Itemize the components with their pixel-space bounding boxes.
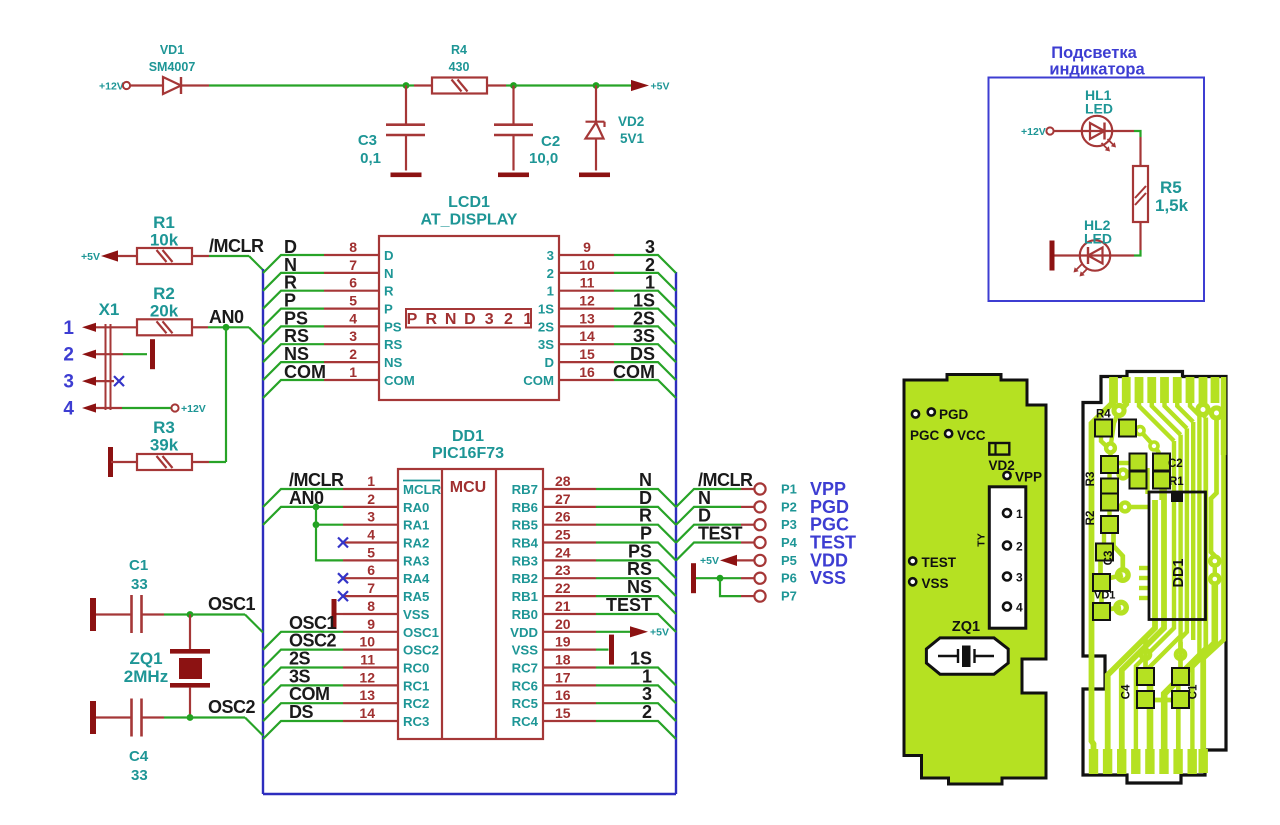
svg-text:13: 13 bbox=[359, 687, 375, 703]
label N at DD1 pin28 bbox=[639, 470, 652, 490]
svg-text:VD1: VD1 bbox=[1094, 590, 1115, 602]
label D at LCD1 left bbox=[284, 237, 297, 257]
DD1 left pin 14 (RC3) bbox=[343, 705, 429, 729]
DD1 left pin 11 (RC0) bbox=[343, 652, 429, 676]
svg-text:12: 12 bbox=[579, 293, 595, 309]
power flag +5V (top rail) bbox=[631, 80, 669, 93]
svg-text:R4: R4 bbox=[451, 43, 467, 57]
svg-text:23: 23 bbox=[555, 562, 571, 578]
connector pin P6 bbox=[754, 568, 846, 588]
svg-text:LED: LED bbox=[1084, 231, 1112, 247]
wire DD1 pin27 to bus (D) bbox=[596, 507, 676, 525]
svg-text:RB7: RB7 bbox=[512, 482, 538, 497]
svg-text:P1: P1 bbox=[781, 482, 797, 497]
svg-text:5V1: 5V1 bbox=[620, 131, 645, 146]
svg-text:21: 21 bbox=[555, 598, 571, 614]
svg-text:TEST: TEST bbox=[922, 555, 957, 570]
PCB pad VSS bbox=[909, 576, 948, 591]
svg-text:5: 5 bbox=[367, 544, 375, 560]
svg-text:1: 1 bbox=[349, 364, 357, 380]
svg-text:VD1: VD1 bbox=[160, 43, 184, 57]
crystal ZQ1 2MHz bbox=[124, 649, 210, 688]
wire bus to LCD1 pin 6 bbox=[263, 291, 324, 309]
wire DD1 pin24 to bus (PS) bbox=[596, 560, 676, 578]
PCB part DD1 outline bbox=[1149, 492, 1206, 620]
resistor R3 39k bbox=[137, 418, 192, 470]
label OSC2 at DD1 pin10 bbox=[289, 631, 337, 651]
LED HL1 bbox=[1082, 87, 1116, 152]
wire node A to R4 bbox=[406, 84, 432, 86]
frame Подсветка индикатора bbox=[989, 44, 1205, 301]
svg-text:3: 3 bbox=[367, 509, 375, 525]
connector pin P7 bbox=[754, 589, 797, 604]
svg-text:OSC1: OSC1 bbox=[208, 594, 256, 614]
svg-text:RC6: RC6 bbox=[512, 678, 538, 693]
DD1 right pin 16 (RC5) bbox=[512, 687, 596, 711]
DD1 right pin 25 (RB4) bbox=[512, 527, 596, 551]
label 3S at LCD1 right bbox=[633, 326, 655, 346]
no-connect X at X1 pin3 bbox=[114, 376, 124, 386]
svg-text:4: 4 bbox=[1016, 601, 1023, 615]
svg-text:PIC16F73: PIC16F73 bbox=[432, 445, 504, 462]
connector pin P1 bbox=[754, 479, 846, 499]
wire node C to +5V arrow bbox=[596, 84, 631, 86]
svg-text:C1: C1 bbox=[129, 557, 148, 574]
svg-text:LED: LED bbox=[1085, 101, 1113, 117]
svg-text:C2: C2 bbox=[1168, 458, 1183, 470]
power flag +12V at X1 pin4 bbox=[171, 403, 205, 415]
ground at DD1 VSS pin8 bbox=[332, 599, 344, 629]
label DS at LCD1 right bbox=[630, 344, 655, 364]
svg-text:19: 19 bbox=[555, 634, 571, 650]
svg-text:P4: P4 bbox=[781, 535, 798, 550]
LCD1 left pin 4 (PS) bbox=[324, 310, 402, 334]
power flag +5V at R1 bbox=[81, 250, 118, 263]
LCD1 left pin 1 (COM) bbox=[324, 364, 415, 388]
ground at C1 bbox=[90, 598, 96, 631]
wire bus to DD1 pin2 AN0 bbox=[263, 507, 343, 525]
wire ground to C4 bbox=[96, 716, 131, 718]
wire R4 to node B bbox=[488, 84, 514, 86]
svg-text:RA1: RA1 bbox=[403, 518, 429, 533]
wire C4 to node OSC2 bbox=[142, 716, 191, 718]
svg-text:PGD: PGD bbox=[939, 407, 969, 422]
svg-text:C4: C4 bbox=[1121, 684, 1133, 699]
IC DD1 PIC16F73 body bbox=[398, 428, 543, 739]
label 2 at DD1 pin15 bbox=[642, 702, 652, 722]
label NS at LCD1 left bbox=[284, 344, 309, 364]
power flag +12V at HL1 bbox=[1021, 126, 1054, 138]
bus right vertical bbox=[675, 272, 677, 794]
wire VDD to +5V bbox=[596, 631, 630, 633]
DD1 left pin 9 (OSC1) bbox=[343, 616, 439, 640]
label R at DD1 pin26 bbox=[639, 506, 652, 526]
svg-text:TEST: TEST bbox=[606, 595, 652, 615]
wire LCD1 pin 16 to bus bbox=[614, 380, 676, 398]
connector pin P4 bbox=[754, 533, 856, 553]
label 1 at DD1 pin17 bbox=[642, 666, 652, 686]
svg-text:P7: P7 bbox=[781, 589, 797, 604]
capacitor C2 10,0 bbox=[494, 125, 560, 171]
PCB copper side outline bbox=[1083, 372, 1226, 784]
svg-text:Подсветка: Подсветка bbox=[1051, 44, 1137, 62]
wire X1 pin1 to R2 bbox=[96, 326, 137, 328]
DD1 left pin 7 (RA5) bbox=[343, 580, 429, 604]
label 1S at LCD1 right bbox=[633, 291, 655, 311]
node AN0 junction bbox=[223, 324, 230, 331]
connector pin P3 bbox=[754, 515, 849, 535]
svg-text:18: 18 bbox=[555, 652, 571, 668]
wire LCD1 pin 9 to bus bbox=[614, 255, 676, 273]
PCB connector X1 footprint bbox=[976, 487, 1026, 628]
PCB pad PGC VCC bbox=[910, 428, 986, 443]
svg-text:RA0: RA0 bbox=[403, 500, 429, 515]
svg-text:39k: 39k bbox=[150, 436, 179, 455]
wire ground to R3 bbox=[111, 461, 137, 463]
wire +5V to P5 bbox=[737, 559, 754, 561]
svg-text:OSC1: OSC1 bbox=[403, 625, 439, 640]
svg-text:RC5: RC5 bbox=[512, 696, 538, 711]
wire DD1 pin25 to bus (P) bbox=[596, 543, 676, 561]
svg-text:P2: P2 bbox=[781, 499, 797, 514]
label TEST at P4 bbox=[698, 524, 743, 544]
wire bus to P4 bbox=[676, 543, 754, 561]
DD1 left pin 6 (RA4) bbox=[343, 562, 430, 586]
svg-text:3: 3 bbox=[1016, 571, 1023, 585]
svg-text:RB3: RB3 bbox=[512, 553, 538, 568]
DD1 right pin 26 (RB5) bbox=[512, 509, 596, 533]
svg-text:NS: NS bbox=[384, 355, 403, 370]
wire node B to C2 bbox=[512, 86, 514, 125]
svg-text:11: 11 bbox=[360, 652, 375, 668]
svg-text:RC2: RC2 bbox=[403, 696, 429, 711]
LCD1 left pin 5 (P) bbox=[324, 293, 393, 317]
LED HL2 bbox=[1074, 217, 1113, 277]
DD1 right pin 18 (RC7) bbox=[512, 652, 596, 676]
svg-text:PGC: PGC bbox=[910, 428, 940, 443]
svg-text:RC0: RC0 bbox=[403, 661, 429, 676]
wire X1 pin2 to ground bbox=[96, 353, 147, 355]
wire bus to DD1 pin14 (DS) bbox=[263, 721, 343, 739]
PCB pad TEST bbox=[909, 555, 957, 570]
svg-text:C1: C1 bbox=[1188, 684, 1200, 699]
svg-text:RC7: RC7 bbox=[512, 661, 538, 676]
PCB part VD2 bbox=[989, 443, 1015, 473]
wire DD1 pin21 to bus (TEST) bbox=[596, 614, 676, 632]
LCD1 right pin 15 (D) bbox=[544, 346, 614, 370]
label N at LCD1 left bbox=[284, 255, 297, 275]
LCD1 right pin 9 (3) bbox=[547, 239, 614, 263]
svg-text:RA2: RA2 bbox=[403, 536, 429, 551]
svg-text:C3: C3 bbox=[358, 132, 377, 149]
svg-text:8: 8 bbox=[349, 239, 357, 255]
svg-text:VPP: VPP bbox=[1015, 470, 1042, 485]
svg-text:10: 10 bbox=[359, 634, 375, 650]
resistor R4 430 bbox=[432, 43, 487, 94]
label R at LCD1 left bbox=[284, 273, 297, 293]
wire AN0 to RA1/RA3 bbox=[316, 507, 343, 561]
wire node A to C3 bbox=[405, 86, 407, 125]
LCD1 right pin 13 (2S) bbox=[538, 310, 614, 334]
label OSC1 at DD1 pin9 bbox=[289, 613, 337, 633]
label 2 at LCD1 right bbox=[645, 255, 655, 275]
svg-text:10,0: 10,0 bbox=[529, 150, 558, 167]
svg-text:LCD1: LCD1 bbox=[448, 194, 490, 211]
svg-text:ZQ1: ZQ1 bbox=[129, 649, 162, 668]
wire DD1 pin16 to bus (3) bbox=[596, 703, 676, 721]
svg-text:COM: COM bbox=[523, 373, 554, 388]
svg-text:3: 3 bbox=[349, 328, 357, 344]
DD1 right pin 24 (RB3) bbox=[512, 544, 596, 568]
label P at DD1 pin25 bbox=[640, 524, 652, 544]
svg-text:+5V: +5V bbox=[81, 251, 100, 263]
label /MCLR at R1 bbox=[209, 236, 264, 256]
label N at P2 bbox=[698, 488, 711, 508]
svg-text:VSS: VSS bbox=[403, 607, 430, 622]
DD1 left pin 2 (RA0) bbox=[343, 491, 429, 515]
bus bottom horizontal bbox=[263, 793, 676, 795]
DD1 left pin 1 (MCLR) bbox=[343, 473, 442, 497]
svg-text:33: 33 bbox=[131, 767, 148, 784]
svg-text:RC1: RC1 bbox=[403, 678, 429, 693]
wire LCD1 pin 10 to bus bbox=[614, 273, 676, 291]
label D at P3 bbox=[698, 506, 711, 526]
capacitor C3 0,1 bbox=[358, 125, 425, 171]
svg-text:27: 27 bbox=[555, 491, 571, 507]
svg-text:D: D bbox=[464, 311, 476, 328]
svg-text:RC3: RC3 bbox=[403, 714, 429, 729]
svg-text:RB2: RB2 bbox=[512, 571, 538, 586]
wire bus to LCD1 pin 4 bbox=[263, 326, 324, 344]
svg-text:TEST: TEST bbox=[698, 524, 743, 544]
no-connect X at RA4 bbox=[338, 573, 348, 583]
svg-text:X1: X1 bbox=[99, 300, 120, 319]
wire bus to DD1 pin12 (3S) bbox=[263, 685, 343, 703]
svg-text:PS: PS bbox=[384, 319, 402, 334]
ground at DD1 pin19 bbox=[609, 635, 614, 665]
node OSC1 junction bbox=[187, 611, 194, 618]
PCB copper traces bbox=[1089, 377, 1227, 774]
LCD1 right pin 16 (COM) bbox=[523, 364, 614, 388]
wire OSC2 to bus bbox=[190, 718, 263, 736]
label PS at DD1 pin24 bbox=[628, 541, 652, 561]
svg-text:P6: P6 bbox=[781, 571, 797, 586]
DD1 left pin 13 (RC2) bbox=[343, 687, 429, 711]
svg-text:P3: P3 bbox=[781, 517, 797, 532]
wire node B to node C bbox=[514, 84, 597, 86]
ground under VD2 bbox=[579, 173, 610, 178]
svg-text:AT_DISPLAY: AT_DISPLAY bbox=[421, 212, 518, 229]
svg-text:2: 2 bbox=[547, 266, 554, 281]
wire bus to LCD1 pin 8 bbox=[263, 255, 324, 273]
wire bus to LCD1 pin 7 bbox=[263, 273, 324, 291]
svg-text:16: 16 bbox=[555, 687, 571, 703]
svg-text:C2: C2 bbox=[541, 133, 560, 150]
node OSC2 junction bbox=[187, 714, 194, 721]
svg-text:D: D bbox=[384, 248, 394, 263]
svg-text:R2: R2 bbox=[1085, 511, 1097, 526]
svg-text:1,5k: 1,5k bbox=[1155, 196, 1189, 215]
label 1S at DD1 pin18 bbox=[630, 649, 652, 669]
power flag +5V at P5 bbox=[700, 555, 737, 567]
LCD1 left pin 8 (D) bbox=[324, 239, 394, 263]
wire bus to LCD1 pin 1 bbox=[263, 380, 324, 398]
svg-text:R1: R1 bbox=[1169, 476, 1184, 488]
PCB copper vias right of DD1 bbox=[1208, 554, 1222, 586]
svg-text:1: 1 bbox=[523, 311, 532, 328]
wire bus to DD1 pin13 (COM) bbox=[263, 703, 343, 721]
svg-text:3: 3 bbox=[63, 372, 74, 393]
label 2S at DD1 pin11 bbox=[289, 649, 311, 669]
wire bus to DD1 pin1 /MCLR bbox=[263, 489, 343, 507]
svg-text:MCLR: MCLR bbox=[403, 482, 442, 497]
wire bus to P2 bbox=[676, 507, 754, 525]
node B junction bbox=[510, 82, 517, 89]
svg-text:24: 24 bbox=[555, 544, 571, 560]
svg-text:COM: COM bbox=[384, 373, 415, 388]
svg-text:R1: R1 bbox=[153, 213, 175, 232]
node P6 junction bbox=[717, 575, 724, 582]
DD1 right pin 19 (VSS) bbox=[512, 634, 596, 658]
wire bus to LCD1 pin 3 bbox=[263, 344, 324, 362]
svg-text:P: P bbox=[384, 302, 393, 317]
label NS at DD1 pin22 bbox=[627, 577, 652, 597]
svg-text:7: 7 bbox=[349, 257, 357, 273]
wire bus to DD1 pin11 (2S) bbox=[263, 668, 343, 686]
svg-text:/MCLR: /MCLR bbox=[209, 236, 264, 256]
svg-text:20: 20 bbox=[555, 616, 571, 632]
svg-text:RB1: RB1 bbox=[512, 589, 538, 604]
svg-text:+12V: +12V bbox=[181, 403, 206, 415]
node C junction bbox=[593, 82, 600, 89]
svg-text:C4: C4 bbox=[129, 748, 149, 765]
connector pin P5 bbox=[754, 550, 848, 570]
wire OSC1 to ZQ1 bbox=[189, 615, 191, 650]
svg-text:RB0: RB0 bbox=[512, 607, 538, 622]
wire P6 node to P7 bbox=[720, 578, 754, 596]
ground at X1 pin2 bbox=[150, 339, 155, 369]
svg-text:10: 10 bbox=[579, 257, 595, 273]
wire R3 to AN0 node bbox=[192, 461, 226, 463]
wire bus to LCD1 pin 2 bbox=[263, 362, 324, 380]
wire ZQ1 to node OSC2 bbox=[189, 688, 191, 718]
svg-text:1: 1 bbox=[63, 318, 74, 339]
svg-text:D: D bbox=[544, 355, 554, 370]
wire LCD1 pin 13 to bus bbox=[614, 326, 676, 344]
svg-text:3S: 3S bbox=[538, 337, 554, 352]
svg-text:2: 2 bbox=[349, 346, 357, 362]
svg-text:28: 28 bbox=[555, 473, 571, 489]
svg-text:1: 1 bbox=[1016, 507, 1023, 521]
svg-text:20k: 20k bbox=[150, 302, 179, 321]
no-connect X at RA5 bbox=[338, 591, 348, 601]
wire ground to P6 bbox=[696, 577, 754, 579]
svg-text:3: 3 bbox=[485, 311, 494, 328]
svg-text:RC4: RC4 bbox=[512, 714, 539, 729]
svg-text:14: 14 bbox=[359, 705, 375, 721]
LCD1 left pin 3 (RS) bbox=[324, 328, 403, 352]
PCB crystal ZQ1 footprint bbox=[926, 619, 1008, 674]
label TEST at DD1 pin21 bbox=[606, 595, 652, 615]
svg-text:2: 2 bbox=[504, 311, 513, 328]
wire DD1 pin23 to bus (RS) bbox=[596, 578, 676, 596]
svg-text:9: 9 bbox=[367, 616, 375, 632]
svg-text:12: 12 bbox=[359, 669, 375, 685]
svg-text:2S: 2S bbox=[538, 319, 554, 334]
svg-text:VSS: VSS bbox=[922, 576, 949, 591]
svg-text:+5V: +5V bbox=[650, 626, 669, 638]
svg-text:VSS: VSS bbox=[810, 568, 846, 588]
svg-text:P5: P5 bbox=[781, 553, 797, 568]
DD1 right pin 22 (RB1) bbox=[512, 580, 596, 604]
svg-text:13: 13 bbox=[579, 310, 595, 326]
svg-text:R3: R3 bbox=[1085, 472, 1097, 487]
wire +12V to HL1 bbox=[1054, 130, 1082, 132]
svg-text:0,1: 0,1 bbox=[360, 150, 381, 167]
wire LCD1 pin 11 to bus bbox=[614, 291, 676, 309]
DD1 left pin 3 (RA1) bbox=[343, 509, 429, 533]
label AN0 bbox=[209, 307, 244, 327]
resistor R2 20k bbox=[137, 284, 192, 335]
svg-text:SM4007: SM4007 bbox=[149, 60, 196, 74]
svg-text:6: 6 bbox=[349, 275, 357, 291]
LCD1 display segments sub-box bbox=[406, 309, 532, 328]
label 2S at LCD1 right bbox=[633, 308, 655, 328]
wire R1 to bus (/MCLR) bbox=[192, 256, 263, 270]
LCD1 right pin 14 (3S) bbox=[538, 328, 614, 352]
wire X1 pin4 to +12V bbox=[96, 407, 171, 409]
svg-text:RB4: RB4 bbox=[512, 536, 539, 551]
label RS at DD1 pin23 bbox=[627, 559, 652, 579]
wire R5 to HL2 bbox=[1110, 222, 1141, 256]
connector X1 bbox=[63, 300, 119, 420]
label P at LCD1 left bbox=[284, 291, 296, 311]
wire DD1 pin28 to bus (N) bbox=[596, 489, 676, 507]
LCD1 right pin 10 (2) bbox=[547, 257, 614, 281]
svg-text:VCC: VCC bbox=[957, 428, 986, 443]
label RS at LCD1 left bbox=[284, 326, 309, 346]
DD1 left pin 5 (RA3) bbox=[343, 544, 429, 568]
svg-text:RB5: RB5 bbox=[512, 518, 538, 533]
node junction RA0 bbox=[313, 504, 320, 511]
wire LCD1 pin 12 to bus bbox=[614, 309, 676, 327]
wire LCD1 pin 15 to bus bbox=[614, 362, 676, 380]
svg-text:15: 15 bbox=[579, 346, 595, 362]
svg-text:DD1: DD1 bbox=[1171, 558, 1187, 587]
svg-text:VSS: VSS bbox=[512, 643, 539, 658]
svg-text:P: P bbox=[407, 311, 418, 328]
wire DD1 pin22 to bus (NS) bbox=[596, 596, 676, 614]
wire DD1 pin18 to bus (1S) bbox=[596, 668, 676, 686]
DD1 right pin 27 (RB6) bbox=[512, 491, 596, 515]
svg-text:33: 33 bbox=[131, 576, 148, 593]
capacitor C4 33 bbox=[129, 699, 149, 785]
PCB pad PGD bbox=[912, 407, 969, 422]
svg-text:+5V: +5V bbox=[700, 555, 719, 567]
wire node C to VD2 bbox=[595, 86, 597, 122]
svg-text:9: 9 bbox=[583, 239, 591, 255]
DD1 left pin 4 (RA2) bbox=[343, 527, 429, 551]
wire bus to DD1 pin10 (OSC2) bbox=[263, 650, 343, 668]
svg-text:C3: C3 bbox=[1103, 551, 1115, 566]
svg-text:1S: 1S bbox=[538, 302, 554, 317]
label COM at LCD1 right bbox=[613, 362, 655, 382]
svg-text:VD2: VD2 bbox=[618, 114, 644, 129]
svg-text:COM: COM bbox=[284, 362, 326, 382]
svg-text:11: 11 bbox=[580, 275, 595, 291]
power flag +5V at VDD bbox=[630, 626, 669, 638]
svg-text:25: 25 bbox=[555, 527, 571, 543]
